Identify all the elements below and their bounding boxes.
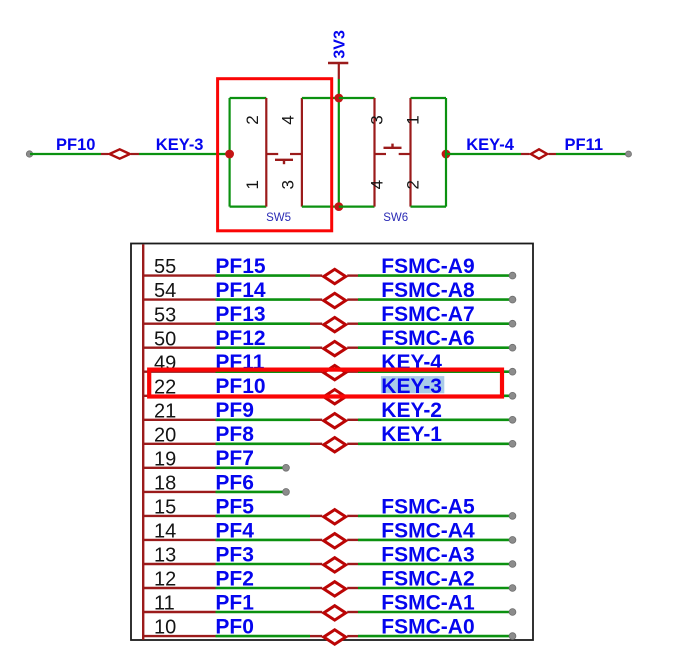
svg-text:PF13: PF13 (215, 303, 265, 326)
svg-text:FSMC-A3: FSMC-A3 (381, 543, 474, 566)
svg-text:4: 4 (368, 180, 387, 189)
svg-text:15: 15 (154, 497, 176, 519)
svg-text:14: 14 (154, 521, 176, 543)
svg-text:3: 3 (279, 180, 298, 189)
svg-text:3: 3 (368, 115, 387, 124)
svg-text:PF0: PF0 (215, 616, 254, 639)
svg-text:55: 55 (154, 256, 176, 278)
svg-text:KEY-4: KEY-4 (466, 136, 515, 154)
svg-text:10: 10 (154, 617, 176, 639)
svg-text:1: 1 (404, 115, 423, 124)
svg-text:3V3: 3V3 (331, 30, 348, 59)
svg-text:PF2: PF2 (215, 567, 254, 590)
svg-text:KEY-2: KEY-2 (381, 399, 442, 422)
svg-text:50: 50 (154, 328, 176, 350)
svg-text:FSMC-A8: FSMC-A8 (381, 279, 475, 302)
svg-text:21: 21 (154, 400, 176, 422)
svg-text:1: 1 (243, 180, 262, 189)
svg-text:PF9: PF9 (215, 399, 254, 422)
svg-text:FSMC-A4: FSMC-A4 (381, 519, 475, 542)
svg-text:20: 20 (154, 424, 176, 446)
svg-text:2: 2 (243, 115, 262, 124)
svg-text:FSMC-A2: FSMC-A2 (381, 567, 474, 590)
svg-text:PF6: PF6 (215, 471, 254, 494)
svg-text:FSMC-A1: FSMC-A1 (381, 591, 475, 614)
svg-text:4: 4 (279, 115, 298, 124)
svg-text:FSMC-A6: FSMC-A6 (381, 327, 474, 350)
svg-text:13: 13 (154, 545, 176, 567)
svg-text:PF14: PF14 (215, 279, 266, 302)
svg-text:SW6: SW6 (383, 212, 408, 224)
svg-text:PF1: PF1 (215, 591, 254, 614)
svg-text:FSMC-A7: FSMC-A7 (381, 303, 474, 326)
svg-text:19: 19 (154, 448, 176, 470)
svg-text:11: 11 (154, 593, 175, 615)
svg-text:KEY-1: KEY-1 (381, 423, 442, 446)
svg-text:PF3: PF3 (215, 543, 254, 566)
svg-text:FSMC-A0: FSMC-A0 (381, 616, 474, 639)
svg-text:2: 2 (404, 180, 423, 189)
svg-text:PF5: PF5 (215, 495, 254, 518)
svg-text:PF7: PF7 (215, 447, 254, 470)
svg-text:PF12: PF12 (215, 327, 265, 350)
svg-text:PF10: PF10 (56, 136, 95, 154)
svg-text:PF11: PF11 (565, 136, 604, 154)
svg-text:SW5: SW5 (266, 212, 291, 224)
svg-text:FSMC-A5: FSMC-A5 (381, 495, 475, 518)
svg-text:18: 18 (154, 473, 176, 495)
svg-text:KEY-3: KEY-3 (156, 136, 204, 154)
svg-text:53: 53 (154, 304, 176, 326)
svg-text:PF4: PF4 (215, 519, 254, 542)
svg-text:FSMC-A9: FSMC-A9 (381, 255, 474, 278)
svg-text:PF15: PF15 (215, 255, 266, 278)
svg-text:54: 54 (154, 280, 176, 302)
svg-text:12: 12 (154, 569, 176, 591)
svg-text:PF8: PF8 (215, 423, 254, 446)
